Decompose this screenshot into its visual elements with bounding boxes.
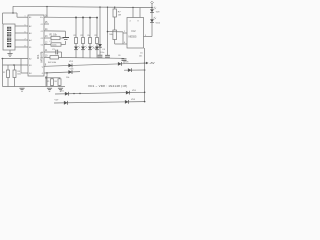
svg-text:R6: R6: [55, 81, 57, 83]
svg-text:C6: C6: [118, 55, 120, 57]
svg-text:R5: R5: [47, 81, 49, 83]
svg-text:8: 8: [25, 45, 26, 47]
svg-text:Vcc: Vcc: [40, 17, 43, 19]
svg-text:R2: R2: [3, 72, 5, 74]
svg-text:NE555: NE555: [129, 35, 137, 39]
svg-text:5: 5: [25, 24, 26, 26]
svg-text:R3: R3: [18, 71, 20, 73]
svg-text:4: 4: [130, 21, 131, 23]
svg-text:O3: O3: [41, 38, 44, 40]
svg-text:10n: 10n: [139, 56, 142, 58]
svg-text:IC2: IC2: [132, 29, 137, 33]
svg-text:1: 1: [25, 15, 26, 17]
svg-text:2: 2: [124, 31, 125, 33]
svg-text:100n: 100n: [100, 52, 104, 54]
svg-text:VD10: VD10: [156, 23, 161, 25]
svg-text:VD1 ~ VD8 : 1N4148 (×8): VD1 ~ VD8 : 1N4148 (×8): [88, 84, 127, 88]
svg-text:O2: O2: [41, 31, 44, 33]
svg-text:O1: O1: [41, 24, 44, 26]
svg-text:7: 7: [25, 38, 26, 40]
svg-text:VD6: VD6: [125, 61, 129, 63]
svg-text:+5V: +5V: [149, 61, 154, 65]
svg-text:6: 6: [25, 31, 26, 33]
svg-text:8: 8: [138, 21, 139, 23]
svg-text:50k: 50k: [109, 34, 112, 36]
svg-text:VD9: VD9: [156, 12, 160, 14]
svg-text:10k: 10k: [66, 77, 69, 79]
svg-text:6: 6: [124, 42, 125, 44]
svg-text:1M: 1M: [118, 15, 121, 17]
svg-text:C1: C1: [41, 52, 43, 54]
svg-text:100k: 100k: [17, 74, 21, 76]
svg-text:C2: C2: [41, 58, 43, 60]
svg-text:O4: O4: [41, 45, 44, 47]
svg-text:R4 100k: R4 100k: [48, 62, 57, 64]
svg-text:100n: 100n: [52, 45, 56, 47]
